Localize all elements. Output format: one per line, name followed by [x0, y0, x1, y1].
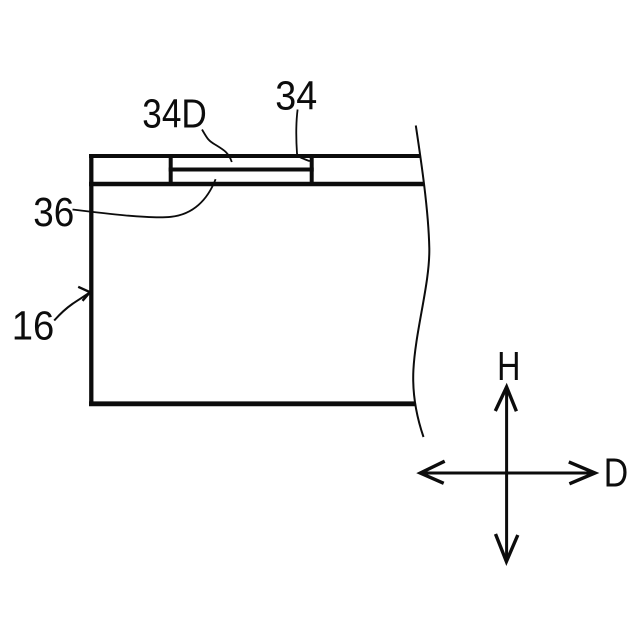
recess 34 left wall — [169, 155, 173, 186]
axis H top arrowhead — [495, 387, 516, 411]
svg-text:16: 16 — [12, 302, 55, 348]
axis D right arrowhead — [569, 462, 595, 484]
axis H arrow (vertical, double headed) — [505, 389, 508, 558]
svg-text:36: 36 — [33, 189, 74, 235]
recess 34 right wall — [310, 155, 314, 186]
body 16 top surface line — [89, 154, 420, 158]
svg-text:34D: 34D — [142, 91, 207, 137]
svg-text:D: D — [604, 449, 628, 495]
leader line from 36 — [73, 179, 216, 217]
svg-text:34: 34 — [275, 73, 317, 119]
arrow leader from 16 — [54, 292, 90, 320]
break line (wavy right edge) — [413, 126, 429, 438]
leader line from 34 — [296, 110, 309, 162]
body 16 bottom edge — [89, 401, 416, 406]
axis D left arrowhead — [420, 461, 444, 483]
svg-text:H: H — [497, 343, 520, 389]
layer 36 bottom boundary line — [89, 182, 424, 186]
axis D arrow (horizontal, double headed) — [421, 472, 592, 475]
arrowhead of 16 leader — [78, 287, 90, 301]
plate 34D bottom line — [169, 168, 314, 172]
body 16 left edge — [89, 154, 93, 406]
leader line from 34D — [202, 130, 232, 163]
axis H bottom arrowhead — [496, 534, 518, 562]
